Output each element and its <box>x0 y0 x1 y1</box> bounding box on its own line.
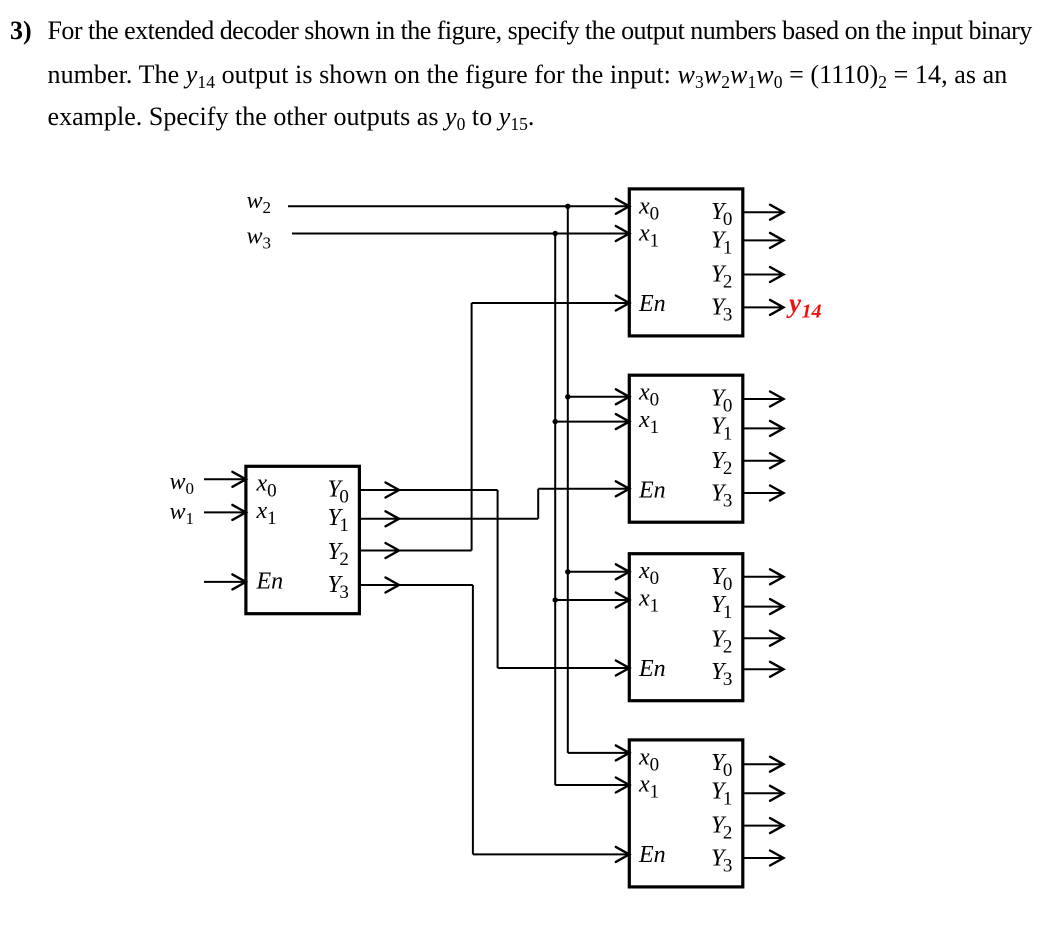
svg-text:En: En <box>256 569 284 595</box>
svg-text:En: En <box>638 291 666 317</box>
svg-text:y14: y14 <box>786 288 821 323</box>
svg-text:En: En <box>638 478 666 504</box>
svg-text:w3: w3 <box>247 224 272 253</box>
svg-text:w0: w0 <box>170 469 195 498</box>
svg-text:En: En <box>638 842 666 868</box>
svg-text:w1: w1 <box>170 499 195 528</box>
svg-text:En: En <box>638 656 666 682</box>
svg-text:w2: w2 <box>247 188 272 217</box>
